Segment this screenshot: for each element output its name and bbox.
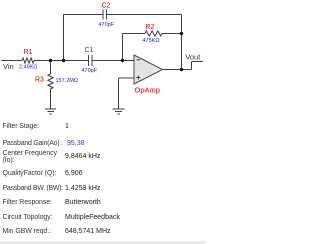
inverting input junction dot — [121, 59, 124, 62]
svg-text:Vout: Vout — [185, 52, 201, 61]
capacitor C2 — [103, 10, 107, 20]
svg-text:C1: C1 — [85, 47, 94, 54]
wire C1 to op-amp inverting input — [92, 60, 134, 62]
wire to R2 left — [123, 33, 146, 35]
svg-text:470pF: 470pF — [82, 68, 98, 74]
wire output step up to Vout — [191, 62, 193, 70]
op-amp minus pin mark — [137, 59, 141, 61]
capacitor C1 — [89, 55, 93, 66]
node B junction dot — [62, 59, 65, 62]
svg-text:157,2MΩ: 157,2MΩ — [56, 78, 78, 84]
svg-text:C2: C2 — [102, 3, 111, 10]
wire node B up to C2 — [63, 15, 65, 61]
table row: QualityFactor — [3, 170, 57, 177]
svg-text:R3: R3 — [35, 77, 44, 84]
wire non-inverting input down to ground — [118, 78, 120, 109]
wire R2 right to feedback bus — [162, 33, 182, 35]
table row: Center Frequency — [3, 150, 57, 164]
table row: Passband Gain — [3, 140, 63, 147]
Vout terminal underline — [192, 61, 204, 63]
svg-text:Vin: Vin — [3, 62, 14, 71]
R2 feedback junction dot — [180, 32, 183, 35]
svg-text:R2: R2 — [146, 24, 155, 31]
resistor R2 — [145, 31, 162, 36]
svg-text:470pF: 470pF — [99, 22, 115, 28]
svg-text:2,49KΩ: 2,49KΩ — [19, 65, 38, 71]
wire R1 to C1 — [34, 60, 89, 62]
wire R3 to ground — [50, 89, 52, 109]
svg-text:OpAmp: OpAmp — [135, 86, 160, 95]
wire non-inverting input — [119, 77, 135, 79]
wire inverting node up to R2 — [122, 34, 124, 61]
wire Vin to R1 — [1, 60, 22, 62]
wire C2 to right feedback bus — [107, 14, 182, 16]
resistor R3 — [48, 74, 53, 89]
ground under R3 — [45, 109, 56, 114]
table row: Circuit Topology — [3, 214, 53, 221]
resistor R1 — [22, 58, 34, 63]
bottom edge band — [0, 241, 206, 244]
wire node A down to R3 — [50, 61, 52, 75]
table row: Filter Stage — [3, 123, 39, 130]
op-amp U1 triangle — [134, 55, 163, 84]
wire feedback bus down — [181, 15, 183, 70]
op-amp plus pin mark — [136, 76, 140, 80]
svg-text:R1: R1 — [24, 49, 33, 56]
table row: Passband BW — [3, 185, 63, 192]
output junction dot — [180, 68, 183, 71]
wire top left to C2 — [64, 14, 104, 16]
node A junction dot — [49, 59, 52, 62]
wire op-amp output — [163, 69, 192, 71]
ground under op-amp — [113, 109, 125, 114]
svg-text:475KΩ: 475KΩ — [143, 38, 160, 44]
schematic canvas — [0, 0, 206, 120]
table row: Filter Response — [3, 199, 52, 206]
table row: Min GBW — [3, 228, 51, 235]
